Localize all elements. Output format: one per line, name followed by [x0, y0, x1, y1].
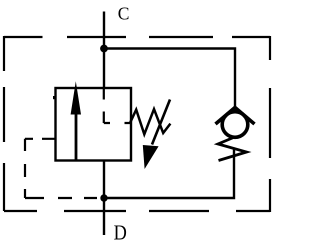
check valve V1 ball: [222, 112, 248, 138]
enclosure dashed border right: [269, 36, 271, 212]
valve V2 small left tick: [53, 96, 56, 99]
svg-text:C: C: [118, 4, 130, 24]
valve V2 adjustment arrow shaft: [152, 100, 170, 145]
valve V2 flow arrow shaft: [75, 111, 78, 161]
node top junction: [100, 45, 108, 53]
svg-text:D: D: [114, 221, 127, 245]
wire check valve bottom: [104, 149, 234, 198]
valve V2 flow arrow head: [71, 81, 81, 114]
enclosure dashed border top: [4, 36, 270, 38]
wire C port vertical: [103, 12, 105, 89]
enclosure dashed border bottom: [4, 210, 270, 212]
valve V2 internal pilot dashed: [104, 88, 131, 123]
check valve V1 spring: [218, 138, 247, 161]
node bottom junction: [100, 194, 107, 201]
valve body V2 square: [56, 88, 132, 161]
wire D port vertical: [103, 161, 105, 236]
valve V2 adjustment arrow head: [143, 145, 159, 169]
enclosure dashed border left: [3, 36, 5, 211]
wire branch to check valve: [104, 49, 235, 108]
valve V2 spring: [130, 109, 170, 134]
pilot line dashed left: [25, 139, 97, 198]
check valve V1 seat: [216, 108, 255, 125]
